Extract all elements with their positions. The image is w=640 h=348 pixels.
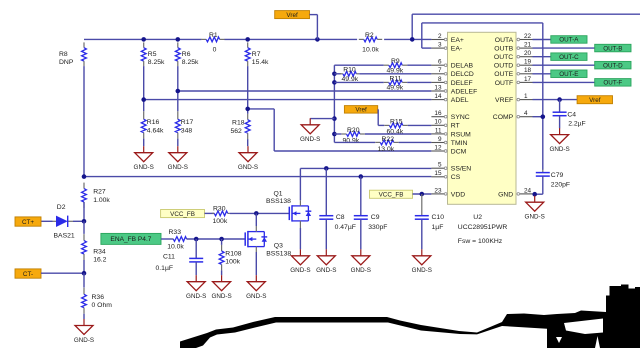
ground GND-S under Q1 xyxy=(299,249,301,256)
resistor R27 xyxy=(83,183,85,189)
svg-text:R22: R22 xyxy=(382,136,395,143)
svg-text:5: 5 xyxy=(438,162,442,169)
pin 23 VDD (left) xyxy=(431,193,444,195)
pin 19 OUTD (right) xyxy=(520,64,533,66)
svg-text:8.25k: 8.25k xyxy=(148,59,165,66)
node R30/Q1 gate/Q3 drain junction xyxy=(254,211,259,216)
ground GND-S under C10 xyxy=(421,249,423,256)
svg-text:DELCD: DELCD xyxy=(451,71,474,78)
svg-text:COMP: COMP xyxy=(493,114,514,121)
capacitor C9 xyxy=(360,177,362,216)
transistor Q3 BSS138 xyxy=(244,232,246,245)
svg-text:C8: C8 xyxy=(336,214,345,221)
svg-text:4: 4 xyxy=(524,110,528,117)
svg-text:19: 19 xyxy=(524,59,532,66)
wire R6 bottom to ADELEF junction xyxy=(177,66,179,91)
pin 12 DCM (left) xyxy=(431,150,444,152)
wire SS/EN net xyxy=(300,167,431,169)
resistor R34 xyxy=(83,221,85,234)
svg-text:100k: 100k xyxy=(213,218,228,225)
node R108 junction xyxy=(219,237,224,242)
resistor R20 xyxy=(334,133,341,135)
pin 24 GND (right) xyxy=(520,193,533,195)
svg-text:220pF: 220pF xyxy=(551,181,570,188)
svg-text:10.0k: 10.0k xyxy=(167,243,184,250)
port ENA_FB P4.7 xyxy=(101,233,161,244)
svg-text:GND-S: GND-S xyxy=(246,293,266,300)
pin 21 OUTB (right) xyxy=(520,47,533,49)
svg-text:GND-S: GND-S xyxy=(351,267,371,274)
svg-text:49.9k: 49.9k xyxy=(387,85,404,92)
svg-text:R27: R27 xyxy=(93,188,106,195)
port OUT-E xyxy=(533,73,551,75)
resistor R108 xyxy=(221,239,223,245)
node D2 cathode junction xyxy=(82,219,87,224)
resistor R8 xyxy=(83,42,85,47)
Vref power port mid xyxy=(344,106,377,114)
pin 1 VREF (right) xyxy=(520,99,533,101)
svg-text:RSUM: RSUM xyxy=(451,131,471,138)
svg-text:3: 3 xyxy=(438,42,442,49)
wire R8 column down to CS net xyxy=(83,66,85,177)
svg-text:13.0k: 13.0k xyxy=(378,146,395,153)
wire R5 bottom to ADEL junction xyxy=(143,66,145,100)
pin 9 TMIN (left) xyxy=(431,142,444,144)
svg-text:2: 2 xyxy=(438,33,442,40)
port CT+ xyxy=(15,217,41,226)
ground GND-S under C9 xyxy=(360,249,362,256)
svg-text:GND-S: GND-S xyxy=(525,214,545,221)
svg-text:22: 22 xyxy=(524,33,532,40)
svg-text:OUTB: OUTB xyxy=(494,46,513,53)
svg-text:VDD: VDD xyxy=(451,191,465,198)
svg-text:R5: R5 xyxy=(148,51,157,58)
svg-text:R1: R1 xyxy=(209,32,218,39)
resistor R16 xyxy=(143,111,145,119)
ground GND-S mid (delay divider) xyxy=(310,118,334,120)
wire Q1 source to ground xyxy=(299,228,301,249)
resistor R7 xyxy=(247,42,249,47)
wire ADEL net (R5 to pin 14) xyxy=(144,99,432,101)
svg-text:0.47µF: 0.47µF xyxy=(335,224,356,231)
svg-text:GND-S: GND-S xyxy=(238,164,258,171)
svg-text:C11: C11 xyxy=(163,253,175,260)
svg-text:OUT-C: OUT-C xyxy=(559,54,579,61)
svg-text:VCC_FB: VCC_FB xyxy=(170,211,195,218)
svg-text:SS/EN: SS/EN xyxy=(451,166,471,173)
pin 8 DELEF (left) xyxy=(431,81,444,83)
ground GND-S under R18 xyxy=(247,139,249,146)
svg-text:6: 6 xyxy=(438,59,442,66)
svg-text:1µF: 1µF xyxy=(432,224,444,231)
svg-text:VREF: VREF xyxy=(495,97,513,104)
pin 18 OUTE (right) xyxy=(520,73,533,75)
svg-text:CS: CS xyxy=(451,174,461,181)
svg-text:GND-S: GND-S xyxy=(290,267,310,274)
pin 11 RSUM (left) xyxy=(431,133,444,135)
svg-text:R6: R6 xyxy=(182,51,191,58)
svg-text:8.25k: 8.25k xyxy=(182,59,199,66)
ground GND-S under Q3 xyxy=(255,275,257,282)
svg-text:U2: U2 xyxy=(473,214,482,221)
port CT- xyxy=(15,269,41,278)
svg-text:562: 562 xyxy=(230,128,242,135)
ground GND-S under C11 xyxy=(195,275,197,282)
svg-text:23: 23 xyxy=(434,187,442,194)
svg-text:ENA_FB P4.7: ENA_FB P4.7 xyxy=(110,236,151,243)
port OUT-F xyxy=(533,81,595,83)
diode D2 BAS21 xyxy=(41,220,53,222)
svg-text:Fsw = 100KHz: Fsw = 100KHz xyxy=(458,238,503,245)
svg-text:OUT-A: OUT-A xyxy=(559,37,579,44)
svg-text:EA-: EA- xyxy=(451,46,462,53)
resistor R9 xyxy=(334,64,383,66)
svg-text:GND: GND xyxy=(498,191,513,198)
ground GND-S under R108 xyxy=(221,275,223,282)
wire DCM net (R18 top to pin 12) xyxy=(248,108,275,110)
resistor R22 xyxy=(334,141,375,143)
resistor R1 xyxy=(201,38,206,40)
svg-text:15: 15 xyxy=(434,170,442,177)
pin 16 SYNC (left) xyxy=(431,116,444,118)
svg-text:DELAB: DELAB xyxy=(451,63,474,70)
node C11 junction xyxy=(194,237,199,242)
svg-text:16: 16 xyxy=(434,110,442,117)
resistor R30 xyxy=(205,212,215,214)
svg-text:GND-S: GND-S xyxy=(549,146,569,153)
pin 4 COMP (right) xyxy=(520,116,533,118)
port OUT-B xyxy=(533,47,595,49)
pin 22 OUTA (right) xyxy=(520,39,533,41)
wire CS net xyxy=(84,176,431,178)
wire Q3 drain up to gate net of Q1 xyxy=(255,213,257,226)
svg-text:Vref: Vref xyxy=(286,12,298,19)
capacitor C10 xyxy=(421,194,423,216)
svg-text:0.1µF: 0.1µF xyxy=(156,265,174,272)
svg-text:15.4k: 15.4k xyxy=(252,59,269,66)
svg-text:Vref: Vref xyxy=(355,107,367,114)
svg-text:16.2: 16.2 xyxy=(93,257,106,264)
svg-text:Vref: Vref xyxy=(589,97,601,104)
svg-text:OUTD: OUTD xyxy=(494,63,513,70)
port VCC_FB (to VDD) xyxy=(370,190,413,198)
resistor R36 xyxy=(83,273,85,287)
svg-text:DNP: DNP xyxy=(59,59,74,66)
svg-text:R16: R16 xyxy=(147,119,160,126)
svg-text:ADEL: ADEL xyxy=(451,97,469,104)
svg-text:R108: R108 xyxy=(225,250,241,257)
wire ADELEF net (R6 to pin 13) xyxy=(178,90,432,92)
port VCC_FB (to R30) xyxy=(161,210,205,218)
svg-text:R17: R17 xyxy=(181,119,194,126)
svg-text:OUTA: OUTA xyxy=(495,37,514,44)
pin 6 DELAB (left) xyxy=(431,64,444,66)
resistor R15 xyxy=(378,124,384,126)
svg-text:C4: C4 xyxy=(567,111,576,118)
svg-text:9: 9 xyxy=(438,136,442,143)
svg-text:EA+: EA+ xyxy=(451,37,464,44)
svg-text:OUTE: OUTE xyxy=(494,71,513,78)
wire EA- feedback loop to COMP xyxy=(422,47,432,49)
svg-text:90.9k: 90.9k xyxy=(343,138,360,145)
svg-text:10.0k: 10.0k xyxy=(362,46,379,53)
pin 15 CS (left) xyxy=(431,176,444,178)
svg-text:C10: C10 xyxy=(432,214,445,221)
resistor R10 xyxy=(334,73,341,75)
svg-text:GND-S: GND-S xyxy=(168,164,188,171)
ground GND-S under R17 xyxy=(177,139,179,147)
resistor R18 xyxy=(247,114,249,120)
resistor R5 xyxy=(143,42,145,47)
resistor R6 xyxy=(177,42,179,47)
svg-text:R20: R20 xyxy=(347,127,360,134)
ground GND-S at pin 24 xyxy=(534,196,536,203)
svg-text:R34: R34 xyxy=(93,248,106,255)
svg-text:R8: R8 xyxy=(59,51,68,58)
ground GND-S under C8 xyxy=(325,249,327,256)
svg-text:Q3: Q3 xyxy=(274,243,283,250)
svg-text:CT-: CT- xyxy=(23,271,33,278)
svg-text:OUT-F: OUT-F xyxy=(603,80,622,87)
svg-text:7: 7 xyxy=(438,67,442,74)
svg-text:GND-S: GND-S xyxy=(412,267,432,274)
svg-text:RT: RT xyxy=(451,123,460,130)
svg-text:R2: R2 xyxy=(365,32,374,39)
svg-text:GND-S: GND-S xyxy=(211,293,231,300)
svg-text:R7: R7 xyxy=(252,51,261,58)
svg-text:GND-S: GND-S xyxy=(316,267,336,274)
resistor R33 xyxy=(161,238,173,240)
resistor R11 xyxy=(334,81,383,83)
wire top rail net xyxy=(84,38,201,40)
svg-text:14: 14 xyxy=(434,93,442,100)
pin 14 ADEL (left) xyxy=(431,99,444,101)
svg-text:0 Ohm: 0 Ohm xyxy=(92,302,113,309)
svg-text:OUT-B: OUT-B xyxy=(603,45,622,52)
port OUT-C xyxy=(533,56,551,58)
pin 13 ADELEF (left) xyxy=(431,90,444,92)
capacitor C8 xyxy=(325,168,327,215)
port Vref right (VREF pin) xyxy=(533,99,578,101)
svg-text:OUTF: OUTF xyxy=(495,80,514,87)
pin 7 DELCD (left) xyxy=(431,73,444,75)
svg-text:OUTC: OUTC xyxy=(494,54,513,61)
svg-text:17: 17 xyxy=(524,76,532,83)
svg-text:DELEF: DELEF xyxy=(451,80,473,87)
ground GND-S under C4 xyxy=(559,128,561,135)
capacitor C79 xyxy=(542,170,544,173)
svg-text:VCC_FB: VCC_FB xyxy=(379,191,404,198)
svg-text:BSS138: BSS138 xyxy=(266,198,291,205)
svg-text:UCC28951PWR: UCC28951PWR xyxy=(458,224,508,231)
op-amp U2 UCC28951PWR body xyxy=(448,32,517,204)
ground GND-S under R16 xyxy=(143,139,145,147)
svg-text:R10: R10 xyxy=(343,67,356,74)
svg-text:ADELEF: ADELEF xyxy=(451,88,477,95)
svg-text:R36: R36 xyxy=(92,294,105,301)
svg-text:10: 10 xyxy=(434,119,442,126)
svg-text:C79: C79 xyxy=(551,172,564,179)
svg-text:GND-S: GND-S xyxy=(186,293,206,300)
svg-text:13: 13 xyxy=(434,84,442,91)
resistor R2 xyxy=(359,38,364,40)
svg-text:TMIN: TMIN xyxy=(451,140,468,147)
svg-text:21: 21 xyxy=(524,42,532,49)
Vref power port top xyxy=(275,11,310,19)
svg-text:GND-S: GND-S xyxy=(134,164,154,171)
svg-text:0: 0 xyxy=(213,46,217,53)
wire VDD net xyxy=(413,193,432,195)
svg-text:1.00k: 1.00k xyxy=(93,197,110,204)
svg-text:BSS138: BSS138 xyxy=(266,251,291,258)
svg-text:4.64k: 4.64k xyxy=(147,127,164,134)
pin 17 OUTF (right) xyxy=(520,81,533,83)
port OUT-A xyxy=(533,39,551,41)
svg-text:1: 1 xyxy=(524,93,528,100)
svg-text:R18: R18 xyxy=(232,120,245,127)
svg-text:20: 20 xyxy=(524,50,532,57)
svg-text:CT+: CT+ xyxy=(22,219,34,226)
port OUT-D xyxy=(533,64,595,66)
resistor R17 xyxy=(177,111,179,119)
svg-text:Q1: Q1 xyxy=(274,190,283,197)
capacitor C11 xyxy=(195,239,197,258)
svg-text:24: 24 xyxy=(524,187,532,194)
pin 10 RT (left) xyxy=(431,124,444,126)
svg-text:BAS21: BAS21 xyxy=(54,233,75,240)
svg-text:8: 8 xyxy=(438,76,442,83)
svg-text:DCM: DCM xyxy=(451,148,467,155)
capacitor C4 xyxy=(559,100,561,113)
svg-text:11: 11 xyxy=(435,127,442,134)
svg-text:330pF: 330pF xyxy=(368,224,387,231)
svg-text:GND-S: GND-S xyxy=(300,136,320,143)
svg-text:2.2µF: 2.2µF xyxy=(568,120,586,127)
svg-text:D2: D2 xyxy=(57,204,66,211)
black redaction scribble bottom xyxy=(180,285,640,348)
svg-text:18: 18 xyxy=(524,67,532,74)
pin 2 EA+ (left) xyxy=(431,39,444,41)
pin 20 OUTC (right) xyxy=(520,56,533,58)
svg-text:OUT-E: OUT-E xyxy=(559,71,578,78)
wire GND pin net xyxy=(535,193,543,195)
wire DELAB/DELCD/DELEF common column xyxy=(333,65,335,142)
svg-text:SYNC: SYNC xyxy=(451,114,470,121)
svg-text:100k: 100k xyxy=(225,258,240,265)
pin 5 SS/EN (left) xyxy=(431,167,444,169)
pin 3 EA- (left) xyxy=(431,47,444,49)
svg-text:R11: R11 xyxy=(390,75,402,82)
wire Q3 source to ground xyxy=(255,252,257,275)
wire R7 bottom to DCM/R18 junction xyxy=(247,66,249,109)
svg-text:R33: R33 xyxy=(169,229,182,236)
svg-text:OUT-D: OUT-D xyxy=(603,62,623,69)
svg-text:348: 348 xyxy=(181,127,193,134)
svg-text:GND-S: GND-S xyxy=(74,337,94,344)
transistor Q1 BSS138 xyxy=(288,207,290,220)
svg-text:R30: R30 xyxy=(213,205,226,212)
svg-text:C9: C9 xyxy=(371,214,380,221)
ground GND-S bottom left xyxy=(83,314,85,319)
svg-text:12: 12 xyxy=(434,144,442,151)
svg-text:R9: R9 xyxy=(391,58,400,65)
svg-text:R15: R15 xyxy=(390,119,403,126)
